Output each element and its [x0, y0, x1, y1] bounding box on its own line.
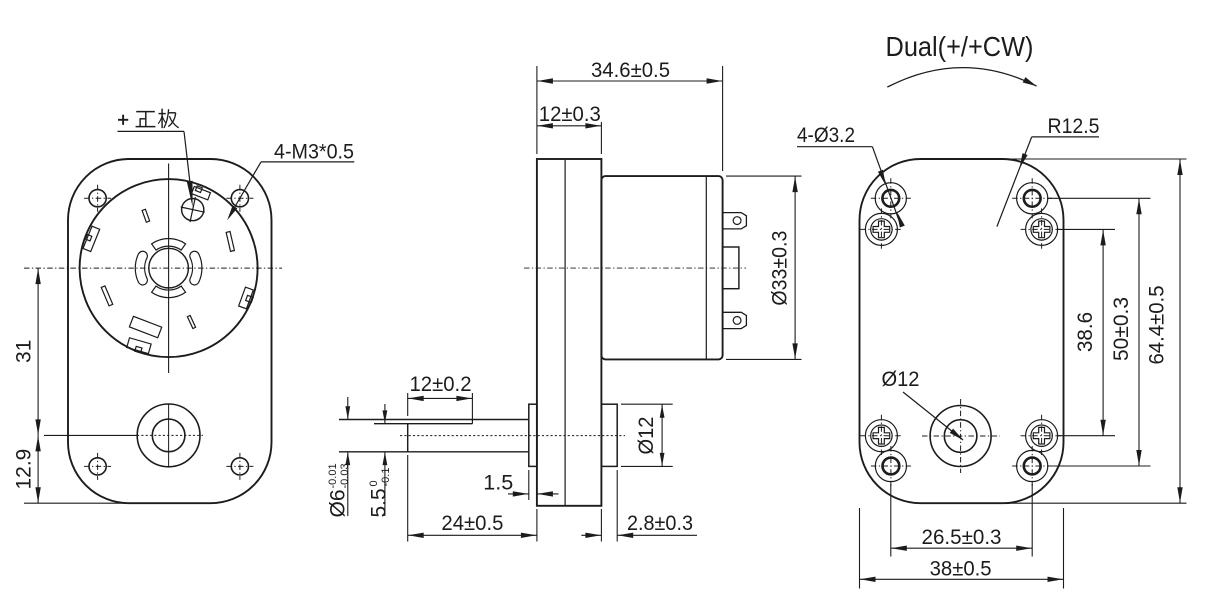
mounting hole bottom-right — [226, 453, 253, 480]
dimension Ø12 side — [621, 404, 673, 466]
svg-text:Ø33±0.3: Ø33±0.3 — [769, 231, 792, 306]
output boss crosshair — [137, 405, 203, 468]
counterbored hole bottom-left — [871, 446, 911, 486]
rear output boss circle — [922, 399, 1000, 473]
svg-text:64.4±0.5: 64.4±0.5 — [1146, 286, 1169, 365]
svg-text:26.5±0.3: 26.5±0.3 — [922, 526, 1002, 549]
dimension 5.5 with tolerance — [368, 404, 393, 518]
dimension 24±0.5 — [408, 455, 537, 542]
output shaft tip — [407, 424, 409, 452]
svg-text:31: 31 — [13, 340, 36, 363]
screw head top-right — [1021, 208, 1063, 250]
extension line to output center — [44, 434, 137, 436]
dimension Ø6 with tolerance — [327, 397, 375, 518]
output shaft boss front view — [137, 404, 200, 467]
counterbored hole top-left — [871, 178, 911, 218]
svg-text:5.5: 5.5 — [368, 488, 391, 517]
svg-text:34.6±0.5: 34.6±0.5 — [591, 59, 670, 82]
front bearing boss — [529, 404, 537, 466]
brush tab E — [239, 287, 254, 309]
brush tab G — [127, 338, 151, 354]
output shaft bottom line — [339, 451, 529, 453]
mounting hole bottom-left — [84, 453, 111, 480]
screw head bottom-right — [1021, 415, 1063, 457]
output shaft centerline — [400, 435, 625, 437]
svg-text:4-M3*0.5: 4-M3*0.5 — [274, 141, 354, 164]
right vent slot — [190, 251, 202, 285]
rear bearing boss — [601, 404, 617, 466]
brush tab B — [83, 226, 100, 251]
left view vertical centerline — [168, 164, 170, 374]
dimension 12.9 — [13, 435, 132, 503]
counterbored hole bottom-right — [1012, 446, 1052, 486]
svg-text:Dual(+/+CW): Dual(+/+CW) — [886, 31, 1034, 62]
bottom vent arc — [152, 286, 186, 298]
svg-text:R12.5: R12.5 — [1048, 115, 1100, 138]
brush card protrusion — [723, 247, 739, 289]
screw head top-left — [860, 208, 902, 250]
svg-text:4-Ø3.2: 4-Ø3.2 — [797, 124, 855, 147]
svg-text:2.8±0.3: 2.8±0.3 — [627, 512, 693, 535]
right view plate outline — [860, 159, 1064, 503]
top vent arc — [152, 239, 186, 251]
svg-text:50±0.3: 50±0.3 — [1110, 297, 1133, 361]
svg-text:12±0.2: 12±0.2 — [410, 373, 472, 396]
svg-text:Ø12: Ø12 — [882, 368, 920, 391]
dimension 2.8±0.3 — [581, 470, 697, 542]
stamped rect F — [129, 316, 161, 337]
svg-text:Ø12: Ø12 — [635, 417, 658, 455]
label 4-Ø3.2 — [797, 124, 905, 228]
dimension 64.4±0.5 — [995, 159, 1187, 503]
mounting hole top-left — [84, 185, 111, 212]
screw head bottom-left — [860, 415, 902, 457]
svg-text:24±0.5: 24±0.5 — [441, 512, 503, 535]
label Ø12 rear — [882, 368, 964, 440]
positive terminal circle — [181, 197, 205, 222]
dimension 1.5 — [483, 470, 558, 500]
left view plate outline — [68, 159, 272, 503]
svg-text:-0.1: -0.1 — [380, 468, 392, 487]
motor rear housing circle — [80, 179, 258, 357]
dimension 38.6 — [1058, 229, 1115, 435]
dimension 12±0.3 — [537, 103, 602, 154]
vent slot A — [142, 209, 150, 222]
svg-text:38±0.5: 38±0.5 — [930, 558, 992, 581]
center shaft hole — [149, 248, 189, 288]
rotation arc arrow — [887, 68, 1036, 88]
dimension 26.5±0.3 — [891, 484, 1032, 557]
svg-text:38.6: 38.6 — [1074, 312, 1097, 352]
motor body side outline — [601, 176, 722, 359]
motor terminal upper — [723, 213, 747, 229]
svg-text:0: 0 — [368, 480, 380, 486]
terminal tab — [192, 186, 211, 200]
gearbox case seam — [564, 159, 566, 506]
label 4-M3*0.5 — [227, 141, 354, 221]
gearbox side outline — [537, 159, 602, 506]
output shaft flat line — [374, 420, 472, 424]
svg-text:-0.01: -0.01 — [327, 463, 339, 488]
label + positive terminal (+ 正极) — [118, 109, 179, 129]
vent slot C — [226, 232, 234, 252]
left view horizontal centerline — [24, 267, 282, 269]
dimension 31 — [13, 268, 41, 435]
svg-text:12.9: 12.9 — [13, 449, 36, 490]
svg-text:Ø6: Ø6 — [327, 489, 350, 517]
dimension 34.6±0.5 — [537, 59, 723, 171]
dimension 50±0.3 — [1048, 198, 1151, 466]
motor centerline — [524, 267, 746, 269]
output shaft top line — [339, 419, 529, 421]
motor terminal lower — [723, 312, 747, 328]
positive terminal leader — [118, 131, 193, 207]
svg-text:1.5: 1.5 — [483, 472, 513, 495]
label R12.5 — [997, 115, 1100, 227]
left vent slot — [135, 251, 147, 285]
motor can seam — [705, 176, 707, 359]
mounting hole top-right — [226, 185, 253, 212]
svg-text:12±0.3: 12±0.3 — [539, 103, 601, 126]
label Dual(+/+CW) — [886, 31, 1034, 62]
dimension 12±0.2 — [408, 373, 473, 420]
dimension 38±0.5 — [860, 508, 1064, 589]
vent slot D — [101, 286, 112, 306]
dimension Ø33±0.3 — [726, 176, 802, 359]
svg-text:-0.03: -0.03 — [339, 463, 351, 488]
vent slot H — [187, 315, 195, 328]
counterbored hole top-right — [1012, 178, 1052, 218]
